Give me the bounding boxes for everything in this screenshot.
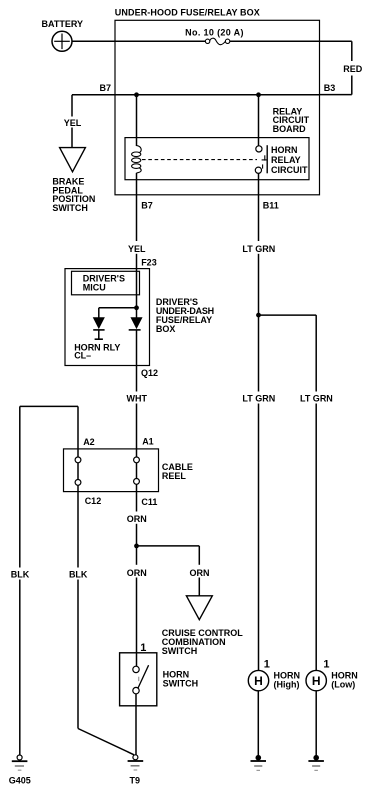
svg-text:BOARD: BOARD: [273, 124, 306, 134]
svg-text:RED: RED: [343, 64, 363, 74]
svg-text:A2: A2: [83, 437, 95, 447]
svg-text:C11: C11: [141, 497, 157, 507]
svg-text:1: 1: [140, 642, 146, 654]
svg-text:T9: T9: [130, 775, 141, 785]
svg-text:YEL: YEL: [64, 118, 82, 128]
svg-text:BLK: BLK: [69, 569, 88, 579]
wire BLK right branch: [78, 406, 134, 754]
svg-text:BOX: BOX: [156, 324, 176, 334]
svg-text:F23: F23: [141, 257, 157, 267]
svg-text:LT GRN: LT GRN: [242, 244, 275, 254]
svg-text:SWITCH: SWITCH: [52, 203, 88, 213]
horn high: [248, 670, 300, 690]
wire bus to relay coil: [136, 95, 138, 146]
svg-text:B3: B3: [324, 83, 336, 93]
wire coil to B7 exit: [136, 173, 138, 308]
svg-text:B7: B7: [100, 83, 112, 93]
svg-text:(Low): (Low): [331, 680, 355, 690]
horn switch contacts: [133, 665, 149, 694]
relay dashed link: [142, 159, 257, 161]
cable reel box: [64, 449, 193, 492]
battery: [42, 19, 84, 51]
svg-text:(High): (High): [274, 680, 300, 690]
horn relay circuit label: [271, 145, 308, 175]
wire horn low to ground: [315, 691, 317, 756]
relay coil: [132, 146, 142, 173]
driver's MICU box: [72, 271, 140, 295]
svg-text:BATTERY: BATTERY: [42, 19, 84, 29]
svg-text:HORN: HORN: [271, 145, 298, 155]
wire horn switch to T9: [135, 694, 137, 755]
svg-text:SWITCH: SWITCH: [162, 646, 198, 656]
wire C11 to horn switch: [136, 484, 138, 666]
svg-text:BLK: BLK: [11, 569, 30, 579]
svg-text:Q12: Q12: [141, 368, 158, 378]
wire bus B7-B3: [72, 94, 320, 96]
ground T9: [128, 755, 144, 786]
under-hood fuse/relay box: [115, 7, 320, 195]
wire bus to relay contact: [258, 95, 260, 146]
wire LT GRN high: [258, 315, 260, 670]
svg-text:SWITCH: SWITCH: [163, 679, 199, 689]
relay circuit board label: [273, 107, 310, 135]
svg-text:H: H: [312, 674, 321, 688]
wire battery feed top: [72, 40, 352, 42]
junction dot bus left: [134, 92, 139, 97]
svg-text:B7: B7: [141, 201, 153, 211]
wire ORN branch to cruise: [137, 546, 200, 596]
svg-text:B11: B11: [263, 201, 279, 211]
svg-text:CIRCUIT: CIRCUIT: [271, 165, 308, 175]
svg-text:1: 1: [264, 658, 270, 670]
svg-text:LT GRN: LT GRN: [242, 393, 275, 403]
svg-text:REEL: REEL: [162, 471, 187, 481]
wire diode to Q12 exit: [136, 330, 138, 457]
svg-text:RELAY: RELAY: [271, 155, 301, 165]
wire BLK bracket: [20, 406, 78, 755]
ground horn low: [308, 755, 324, 771]
driver's under-dash fuse/relay box: [65, 269, 214, 366]
wire contact to B11 exit: [258, 173, 260, 315]
svg-text:ORN: ORN: [127, 514, 147, 524]
svg-text:ORN: ORN: [127, 568, 147, 578]
svg-text:UNDER-HOOD FUSE/RELAY BOX: UNDER-HOOD FUSE/RELAY BOX: [115, 7, 260, 17]
svg-text:WHT: WHT: [127, 394, 148, 404]
junction dot ORN branch: [134, 544, 139, 549]
wire horn high to ground: [257, 691, 259, 756]
fuse No.10 20A: [185, 28, 244, 45]
diode right: [129, 308, 142, 330]
ground horn high: [251, 755, 267, 771]
svg-text:1: 1: [323, 658, 329, 670]
junction dot LT GRN split: [256, 313, 261, 318]
horn low: [306, 670, 358, 690]
cable reel pins right: [134, 457, 140, 484]
wire LT GRN low: [259, 315, 317, 670]
svg-text:ORN: ORN: [190, 568, 210, 578]
diode left: [93, 318, 104, 340]
wire YEL to brake switch: [64, 95, 82, 148]
svg-text:H: H: [254, 674, 263, 688]
svg-text:YEL: YEL: [128, 244, 146, 254]
label HORN RLY CL-: [74, 342, 120, 360]
relay contact: [255, 145, 267, 173]
wire diode branch: [99, 308, 137, 318]
svg-text:A1: A1: [142, 437, 154, 447]
junction dot bus right: [256, 92, 261, 97]
brake pedal position switch arrow: [52, 148, 95, 214]
ground G405: [9, 755, 31, 785]
horn switch box: [120, 653, 199, 706]
cruise control combination switch arrow: [162, 596, 244, 656]
wire RED: [320, 41, 363, 94]
svg-text:No. 10 (20 A): No. 10 (20 A): [185, 28, 244, 38]
svg-text:G405: G405: [9, 775, 31, 785]
svg-text:CL–: CL–: [74, 350, 91, 360]
horn relay box: [125, 138, 309, 180]
junction dot diode branch: [134, 305, 139, 310]
cable reel pins left: [75, 457, 81, 485]
svg-text:C12: C12: [85, 496, 102, 506]
svg-text:MICU: MICU: [83, 282, 106, 292]
svg-text:LT GRN: LT GRN: [300, 393, 333, 403]
